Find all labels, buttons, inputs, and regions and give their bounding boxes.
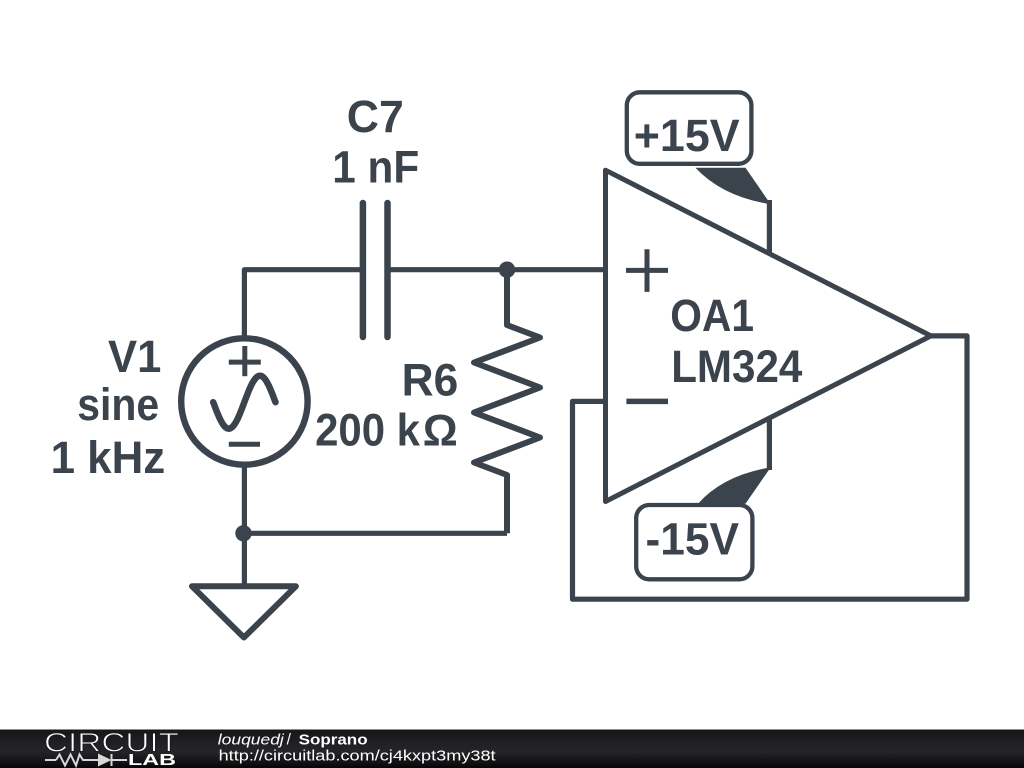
op-amp - input symbol [626, 399, 668, 405]
+15V supply pin stub [767, 200, 772, 255]
svg-text:C7: C7 [347, 91, 404, 142]
svg-text:/: / [287, 732, 292, 749]
svg-text:LAB: LAB [128, 752, 176, 768]
+15V flag wedge [695, 168, 770, 204]
node dot at V1-/R6/ground junction [235, 525, 251, 541]
V1 plus polarity mark [229, 346, 261, 376]
-15V supply pin stub [767, 418, 772, 470]
svg-text:Soprano: Soprano [299, 732, 368, 749]
svg-text:http://circuitlab.com/cj4kxpt3: http://circuitlab.com/cj4kxpt3my38t [219, 748, 497, 765]
svg-text:louquedj: louquedj [218, 732, 285, 749]
ground [192, 586, 296, 637]
svg-text:sine: sine [77, 379, 159, 430]
svg-text:LM324: LM324 [671, 341, 803, 392]
logo diode bar and wire [111, 754, 113, 766]
svg-text:+15V: +15V [634, 110, 741, 161]
-15V label box [636, 505, 752, 579]
wire ground stub [242, 533, 247, 585]
logo diode triangle [98, 754, 112, 767]
svg-text:-15V: -15V [646, 514, 740, 565]
svg-text:1 nF: 1 nF [332, 142, 419, 193]
svg-text:R6: R6 [402, 355, 459, 406]
CircuitLab logo squiggle: wire [45, 754, 127, 766]
wire feedback loop: output to inverting input [573, 336, 968, 599]
svg-text:Ω: Ω [423, 406, 458, 456]
logo resistor zigzag [56, 755, 98, 766]
svg-text:V1: V1 [108, 331, 161, 382]
wire capacitor right plate to op-amp + input [388, 267, 606, 272]
resistor R6 [474, 270, 540, 534]
svg-text:OA1: OA1 [670, 290, 754, 341]
svg-text:1 kHz: 1 kHz [51, 432, 166, 483]
V1 sine wave [213, 376, 275, 429]
wire V1 bottom lead [242, 465, 247, 533]
capacitor C7 [363, 203, 388, 337]
op-amp OA1 triangle [606, 170, 931, 501]
wire ground node to R6 bottom [244, 531, 507, 536]
-15V flag wedge [698, 468, 770, 504]
node dot at C7/R6/op-amp junction [499, 262, 515, 278]
+15V label box [627, 92, 752, 164]
op-amp + input symbol [626, 249, 668, 292]
wire V1 top to capacitor left plate [244, 270, 363, 340]
voltage source V1 circle [181, 338, 307, 464]
V1 minus polarity mark [229, 442, 260, 447]
svg-text:200 k: 200 k [315, 405, 421, 456]
